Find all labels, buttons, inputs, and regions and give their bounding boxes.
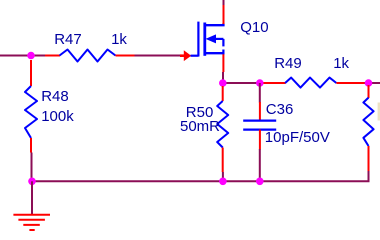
ground stem — [31, 181, 33, 214]
wire Q10 source to node — [222, 72, 224, 83]
resistor R49 — [285, 78, 336, 88]
resistor R47 right pin — [116, 55, 135, 57]
resistor R50 top pin — [222, 86, 224, 101]
node junction ground — [28, 178, 36, 186]
node junction R49 right — [365, 79, 373, 87]
wire R49 to right node — [365, 82, 380, 84]
ground bar 1 — [13, 214, 50, 216]
node junction Q10 source / R50 — [219, 79, 227, 87]
transistor Q1 gate pin stub — [191, 55, 199, 57]
transistor Q10 source pin tick — [222, 50, 224, 55]
resistor R48 top pin — [30, 60, 32, 86]
resistor R49 left pin — [263, 82, 286, 84]
transistor Q10 drain pin — [223, 5, 225, 24]
resistor R47 left pin — [45, 55, 60, 57]
wire right resistor to bottom rail — [32, 171, 369, 181]
capacitor C36 top plate — [243, 119, 276, 121]
wire R47 to gate arrow — [135, 55, 185, 57]
transistor Q10 source stub — [205, 52, 225, 54]
label R48 — [41, 89, 69, 104]
label Q10 — [240, 20, 268, 35]
transistor Q10 bulk line — [214, 38, 223, 40]
label R50 value 50mR — [180, 119, 220, 134]
clipped object right edge — [378, 103, 380, 121]
resistor R47 — [60, 50, 116, 62]
transistor Q10 gate bar — [197, 22, 199, 57]
ground bar 4 — [29, 229, 34, 231]
transistor Q10 drain stub — [205, 24, 224, 26]
label R47 value 1k — [111, 32, 127, 47]
resistor R49 right pin — [336, 82, 365, 84]
resistor R48 — [25, 86, 37, 138]
wire node to C36 node — [223, 82, 264, 84]
wire left input to R47 — [0, 55, 46, 57]
capacitor C36 bottom plate — [243, 128, 276, 130]
node junction R47/R48 — [27, 52, 35, 60]
wire C36 node to top plate — [259, 83, 261, 103]
label R48 value 100k — [41, 109, 74, 124]
label R47 — [54, 32, 82, 47]
transistor Q10 bulk drop line — [222, 39, 224, 47]
node junction C36 top — [256, 79, 264, 87]
resistor R51 bottom pin — [368, 146, 370, 172]
wire arrow at Q10 gate — [184, 50, 191, 61]
ground bar 3 — [23, 224, 40, 226]
resistor R50 bottom pin — [222, 148, 224, 173]
wire top to Q10 drain — [223, 0, 225, 6]
resistor R51 top pin — [368, 85, 370, 98]
resistor R48 bottom pin — [30, 138, 32, 153]
label C36 value 10pF/50V — [265, 130, 330, 145]
transistor Q10 channel bar — [203, 23, 206, 56]
resistor R51 — [363, 98, 373, 146]
transistor Q10 source pin — [222, 54, 224, 72]
label R50 — [186, 105, 214, 120]
transistor Q10 bulk arrow — [206, 34, 217, 43]
ground bar 2 — [18, 219, 45, 221]
node junction C36 bottom — [256, 178, 264, 186]
label C36 — [266, 102, 294, 117]
capacitor C36 bottom pin — [259, 130, 261, 150]
resistor R50 — [217, 101, 228, 148]
label R49 — [274, 56, 302, 71]
node junction R50 bottom — [219, 178, 227, 186]
wire C36 bottom to rail — [259, 149, 261, 181]
wire R50 to bottom rail — [222, 172, 224, 181]
label R49 value 1k — [333, 56, 349, 71]
capacitor C36 top pin — [259, 102, 261, 121]
wire R48 to ground node — [31, 153, 33, 182]
